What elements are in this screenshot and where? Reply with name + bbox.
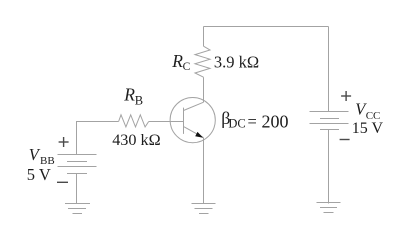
wire: VBB minus lead to ground: [76, 174, 78, 204]
wire: VCC plus lead: [328, 27, 330, 112]
svg-text:R: R: [171, 51, 183, 71]
label VCC: [355, 100, 380, 123]
wire: RB to transistor base: [149, 121, 184, 123]
wire: collector top to RC: [203, 27, 205, 47]
value 5 V: [27, 165, 51, 184]
svg-text:DC: DC: [228, 116, 245, 130]
svg-text:B: B: [135, 93, 143, 107]
battery VCC: [310, 112, 349, 130]
value 15 V: [352, 120, 384, 137]
svg-text:200: 200: [262, 112, 289, 132]
svg-text:5 V: 5 V: [27, 165, 51, 184]
label VBB: [29, 145, 55, 167]
polarity - (VBB): [57, 181, 68, 183]
battery VBB: [58, 155, 97, 174]
label beta DC = 200: [221, 108, 288, 131]
polarity - (VCC): [340, 139, 350, 141]
wire: top rail RC to VCC: [204, 26, 329, 28]
value 430 kOhm: [112, 131, 160, 149]
label RB: [123, 85, 143, 108]
resistor RC 3.9 kOhm (vertical zigzag): [195, 46, 210, 77]
svg-text:R: R: [123, 85, 135, 105]
ground (emitter): [192, 204, 216, 214]
wire: VBB plus to RB: [77, 122, 119, 155]
svg-text:15 V: 15 V: [352, 120, 384, 137]
wire: RC bottom to transistor collector: [203, 77, 205, 102]
ground (VCC): [317, 203, 341, 213]
transistor Q1 (NPN): [170, 98, 215, 143]
wire: VCC minus lead to ground: [328, 130, 330, 204]
svg-text:3.9 kΩ: 3.9 kΩ: [214, 52, 259, 71]
svg-text:430 kΩ: 430 kΩ: [112, 131, 160, 149]
value 3.9 kOhm: [214, 52, 259, 71]
svg-text:C: C: [183, 61, 191, 73]
svg-text:=: =: [248, 112, 257, 131]
ground (VBB): [65, 204, 90, 214]
polarity + (VCC): [341, 91, 351, 101]
resistor RB 430 kOhm (horizontal zigzag): [119, 115, 149, 127]
svg-text:V: V: [29, 145, 41, 164]
wire: emitter to ground: [203, 138, 205, 204]
label RC: [171, 51, 190, 73]
polarity + (VBB): [59, 137, 69, 147]
